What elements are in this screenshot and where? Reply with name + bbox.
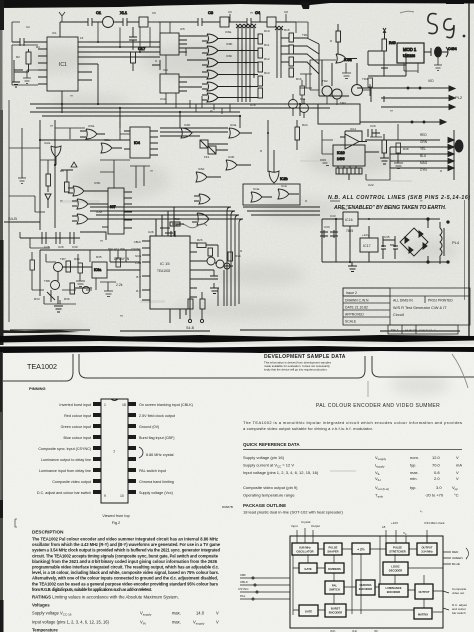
svg-text:C33: C33: [330, 214, 336, 218]
svg-text:Ground (0V): Ground (0V): [139, 425, 159, 429]
svg-text:DRAWN C.W.N: DRAWN C.W.N: [345, 299, 369, 303]
svg-text:R40: R40: [389, 41, 396, 45]
svg-text:18 lead plastic dual in-line (: 18 lead plastic dual in-line (SOT-102 wi…: [243, 510, 344, 515]
svg-text:VID: VID: [428, 79, 434, 83]
svg-text:Supply voltage (pin 16): Supply voltage (pin 16): [243, 455, 285, 460]
svg-text:IC5b: IC5b: [94, 181, 101, 185]
svg-text:IC9a: IC9a: [94, 268, 101, 272]
svg-text:from R.G.B. digital inputs, su: from R.G.B. digital inputs, suitable for…: [32, 587, 152, 592]
svg-text:PROJ PRINTED: PROJ PRINTED: [428, 299, 453, 303]
svg-text:Temperature: Temperature: [32, 628, 58, 632]
svg-text:IC6b: IC6b: [184, 123, 191, 127]
svg-text:C2: C2: [26, 25, 30, 29]
svg-text:typ.: typ.: [410, 463, 416, 468]
svg-text:R36: R36: [64, 297, 70, 301]
svg-text:Luminance input from delay lin: Luminance input from delay line: [39, 469, 91, 473]
svg-text:XL1: XL1: [120, 10, 128, 15]
svg-text:3.54 MHz: 3.54 MHz: [421, 550, 433, 554]
svg-text:GATE: GATE: [305, 610, 312, 614]
svg-text:2.0: 2.0: [434, 476, 440, 481]
svg-text:min.: min.: [410, 476, 418, 481]
svg-text:C8: C8: [284, 10, 288, 14]
svg-text:R5: R5: [60, 169, 64, 173]
svg-text:Operating temperature range: Operating temperature range: [243, 493, 295, 498]
svg-text:V: V: [216, 611, 219, 616]
svg-text:Supply voltage (Vcc): Supply voltage (Vcc): [139, 491, 173, 495]
svg-text:8.86 MHz: 8.86 MHz: [299, 546, 311, 550]
svg-text:R24: R24: [302, 123, 308, 127]
svg-text:1: 1: [104, 403, 106, 407]
svg-text:W/S R Test Generator C/W & IT: W/S R Test Generator C/W & IT: [393, 306, 447, 310]
svg-text:IC3b: IC3b: [228, 155, 235, 159]
svg-text:GRN: GRN: [420, 140, 428, 144]
svg-text:SHAPER: SHAPER: [327, 550, 338, 554]
svg-text:BLUE: BLUE: [452, 562, 460, 566]
svg-text:IC11: IC11: [350, 127, 356, 131]
svg-text:C6: C6: [228, 10, 232, 14]
svg-text:level, is a 16 colour, includi: level, is a 16 colour, including black a…: [32, 570, 219, 575]
svg-text:C30: C30: [72, 245, 78, 249]
svg-text:V: V: [456, 455, 459, 460]
svg-text:DELAY IN: DELAY IN: [114, 257, 130, 261]
svg-text:STRETCHER: STRETCHER: [389, 550, 405, 554]
svg-text:CBF: CBF: [240, 573, 246, 577]
svg-text:*:: *:: [420, 509, 423, 514]
svg-text:C20: C20: [370, 124, 376, 128]
svg-text:max.: max.: [410, 470, 419, 475]
svg-text:+12V: +12V: [362, 233, 369, 237]
svg-text:7805: 7805: [346, 229, 353, 233]
svg-text:2.2k: 2.2k: [116, 283, 123, 287]
svg-text:PAL: PAL: [240, 594, 246, 598]
svg-text:ENCODER: ENCODER: [387, 590, 400, 594]
svg-text:IC5c: IC5c: [96, 210, 103, 214]
svg-text:2.5V field clock output: 2.5V field clock output: [139, 414, 175, 418]
svg-text:Luminance output to delay line: Luminance output to delay line: [41, 458, 91, 462]
svg-text:GATE: GATE: [304, 567, 311, 571]
svg-text:nom.: nom.: [410, 455, 419, 460]
svg-text:DATE 21.10.82: DATE 21.10.82: [345, 306, 368, 310]
svg-text:On screen blanking input (CBLK: On screen blanking input (CBLK): [139, 403, 193, 407]
svg-text:bar switch: bar switch: [452, 611, 466, 615]
svg-text:+5V: +5V: [342, 207, 347, 211]
svg-text:The TEA1002 is a monolithic bi: The TEA1002 is a monolithic bipolar inte…: [243, 420, 462, 425]
svg-text:LOGIC: LOGIC: [391, 565, 400, 569]
svg-text:C29: C29: [58, 245, 64, 249]
svg-text:R31: R31: [300, 97, 306, 101]
svg-text:MATRIX: MATRIX: [418, 613, 428, 617]
svg-text:YEL: YEL: [420, 147, 426, 151]
svg-text:R15: R15: [284, 28, 290, 32]
svg-text:IC6a: IC6a: [88, 124, 95, 128]
svg-text:RV1: RV1: [235, 254, 241, 258]
svg-text:OUTPUT: OUTPUT: [418, 590, 429, 594]
svg-text:SCALE: SCALE: [345, 320, 357, 324]
svg-text:Crystal: Crystal: [301, 520, 311, 524]
svg-text:ALL DIMS IN: ALL DIMS IN: [393, 299, 413, 303]
svg-text:N.B. ALL CONTROL LINES (SKB PI: N.B. ALL CONTROL LINES (SKB PINS 2-5,14-…: [328, 195, 470, 201]
svg-text:C17: C17: [138, 46, 146, 51]
svg-text:C5: C5: [152, 11, 156, 15]
svg-text:SWITCH: SWITCH: [329, 588, 340, 592]
svg-text:C1: C1: [96, 10, 102, 15]
svg-text:TR4: TR4: [362, 77, 368, 81]
svg-text:C26: C26: [148, 230, 154, 234]
svg-text:R35: R35: [96, 255, 102, 259]
svg-text:IC2b: IC2b: [280, 177, 288, 181]
svg-text:9: 9: [104, 494, 106, 498]
svg-text:÷ 2½: ÷ 2½: [357, 548, 365, 552]
svg-text:R13: R13: [264, 71, 270, 75]
svg-text:APPROVED: APPROVED: [345, 313, 364, 317]
svg-text:PAL COLOUR ENCODER AND VIDEO S: PAL COLOUR ENCODER AND VIDEO SUMMER: [316, 403, 440, 409]
svg-text:R33: R33: [74, 257, 80, 261]
svg-text:IC17: IC17: [363, 244, 371, 248]
svg-text:1496: 1496: [337, 157, 345, 161]
svg-text:Input: Input: [291, 524, 298, 528]
svg-text:imply that the device will go: imply that the device will go into regul…: [264, 368, 328, 372]
svg-text:Viewed from top: Viewed from top: [102, 514, 129, 518]
svg-text:LUMINANCE: LUMINANCE: [385, 586, 401, 590]
svg-text:70.0: 70.0: [432, 463, 441, 468]
svg-text:C22: C22: [368, 183, 374, 187]
svg-text:CBLK: CBLK: [240, 580, 248, 584]
svg-text:Composite sync. input (CSYNC): Composite sync. input (CSYNC): [38, 447, 91, 451]
svg-text:PINNING: PINNING: [29, 386, 46, 391]
svg-text:C35: C35: [384, 235, 390, 239]
svg-text:RATINGS Limiting values in acc: RATINGS Limiting values in accordance wi…: [32, 595, 179, 600]
svg-text:V: V: [456, 476, 459, 481]
svg-text:MAG: MAG: [420, 161, 428, 165]
svg-text:-20 to +70: -20 to +70: [425, 493, 444, 498]
svg-text:RV2: RV2: [34, 297, 40, 301]
svg-text:Alternatively, with one of the: Alternatively, with one of the colour in…: [32, 576, 218, 581]
svg-text:typ.: typ.: [410, 485, 416, 490]
svg-text:Input voltage (pins 1, 2, 3, 4: Input voltage (pins 1, 2, 3, 4, 6, 12, 1…: [243, 470, 319, 475]
svg-text:Voltages: Voltages: [32, 603, 50, 608]
svg-text:10: 10: [120, 494, 124, 498]
svg-text:DESCRIPTION: DESCRIPTION: [32, 530, 64, 535]
svg-text:Chroma band limiting: Chroma band limiting: [139, 480, 174, 484]
svg-text:3.54 MHz clock: 3.54 MHz clock: [424, 521, 445, 525]
svg-text:IC3: IC3: [163, 68, 168, 72]
svg-text:FF1: FF1: [204, 155, 210, 159]
svg-text:Red colour input: Red colour input: [64, 414, 91, 418]
svg-text:R12: R12: [264, 57, 270, 61]
svg-text:GREEN: GREEN: [452, 556, 463, 560]
svg-text:TR8: TR8: [44, 279, 50, 283]
svg-text:QUICK REFERENCE DATA: QUICK REFERENCE DATA: [243, 442, 300, 447]
svg-text:IC1: IC1: [59, 62, 67, 68]
svg-text:PL4: PL4: [452, 240, 460, 245]
svg-text:MOD 1: MOD 1: [403, 47, 417, 52]
svg-text:IC1: IC1: [52, 31, 57, 35]
svg-text:IC6d: IC6d: [198, 167, 205, 171]
svg-text:D.C. adjust and colour bar swi: D.C. adjust and colour bar switch: [37, 491, 91, 495]
svg-text:PULSE: PULSE: [329, 546, 338, 550]
svg-text:R1: R1: [36, 45, 40, 49]
svg-text:PACKAGE OUTLINE: PACKAGE OUTLINE: [243, 503, 286, 508]
svg-text:ENCODER: ENCODER: [329, 611, 342, 615]
svg-text:PL2: PL2: [455, 95, 463, 100]
svg-text:system a 3.54 MHz clock output: system a 3.54 MHz clock output is provid…: [32, 548, 220, 553]
svg-text:IC4: IC4: [134, 141, 140, 145]
svg-text:Composite video output: Composite video output: [52, 480, 91, 484]
svg-text:PULSE: PULSE: [393, 546, 402, 550]
svg-text:Green colour input: Green colour input: [61, 425, 91, 429]
svg-text:Inverted burst input: Inverted burst input: [59, 403, 91, 407]
svg-text:IC3d: IC3d: [160, 97, 167, 101]
svg-text:DIVIDERS: DIVIDERS: [328, 567, 341, 571]
svg-text:8.86 MHz crystal: 8.86 MHz crystal: [146, 453, 174, 457]
svg-text:a composite video output suita: a composite video output suitable for dr…: [243, 426, 373, 431]
svg-text:Fig.2: Fig.2: [112, 521, 120, 525]
svg-text:The TEA1002 Pal colour encoder: The TEA1002 Pal colour encoder and video…: [32, 537, 218, 542]
svg-text:12.0: 12.0: [432, 455, 441, 460]
svg-text:circuit. The TEA1002 accepts t: circuit. The TEA1002 accepts timing sign…: [32, 553, 219, 558]
svg-text:V: V: [456, 470, 459, 475]
svg-text:C33: C33: [324, 225, 330, 229]
svg-text:video out: video out: [452, 591, 464, 595]
svg-text:3.0: 3.0: [436, 485, 442, 490]
svg-text:R16: R16: [296, 77, 302, 81]
svg-text:°C: °C: [454, 493, 459, 498]
svg-text:TR7: TR7: [60, 257, 66, 261]
svg-text:IC 15: IC 15: [160, 261, 170, 266]
svg-text:TR2: TR2: [322, 79, 328, 83]
svg-text:R18: R18: [250, 103, 256, 107]
svg-text:S4-B: S4-B: [186, 326, 195, 330]
svg-text:Circuit: Circuit: [393, 313, 405, 317]
svg-text:V: V: [216, 620, 219, 625]
svg-text:IC8c: IC8c: [226, 54, 233, 58]
svg-text:RED: RED: [452, 550, 459, 554]
svg-text:IC5: IC5: [180, 27, 185, 31]
svg-text:OSCILLATOR: OSCILLATOR: [296, 550, 313, 554]
svg-text:Burst flag input (CBF): Burst flag input (CBF): [139, 436, 174, 440]
svg-text:IC4a: IC4a: [253, 187, 260, 191]
svg-text:IC4c: IC4c: [281, 184, 288, 188]
svg-text:mA: mA: [456, 463, 462, 468]
svg-text:Output: Output: [311, 524, 320, 528]
svg-text:C494: C494: [448, 47, 457, 51]
svg-text:IC8a: IC8a: [225, 30, 232, 34]
svg-text:OUTPUT: OUTPUT: [421, 546, 432, 550]
svg-text:DEVELOPMENT SAMPLE DATA: DEVELOPMENT SAMPLE DATA: [264, 354, 346, 360]
svg-text:IC16: IC16: [345, 218, 353, 222]
svg-text:R11: R11: [264, 43, 270, 47]
svg-text:max.: max.: [172, 620, 181, 625]
svg-text:R48: R48: [403, 147, 409, 151]
svg-text:Issue 2: Issue 2: [346, 291, 357, 295]
svg-text:IC3a: IC3a: [230, 123, 237, 127]
svg-text:IC6c: IC6c: [104, 138, 111, 142]
svg-text:blanking) from the 2621 and a: blanking) from the 2621 and a 4 bit bina…: [32, 559, 218, 564]
svg-text:IC8b: IC8b: [226, 42, 233, 46]
svg-text:PAL: PAL: [332, 584, 338, 588]
svg-text:+12V: +12V: [391, 521, 398, 525]
svg-text:R10: R10: [264, 29, 270, 33]
svg-text:programmable video interface i: programmable video interface integrated …: [32, 565, 219, 570]
svg-text:C7: C7: [256, 10, 260, 14]
svg-text:D9667B: D9667B: [222, 505, 233, 509]
svg-text:TEA1002: TEA1002: [157, 269, 171, 273]
svg-text:BLU: BLU: [420, 154, 427, 158]
svg-text:R2: R2: [16, 55, 20, 59]
svg-text:IC10: IC10: [337, 151, 345, 155]
svg-text:R26: R26: [197, 238, 203, 242]
svg-text:C3: C3: [208, 10, 214, 15]
svg-text:Blue colour input: Blue colour input: [64, 436, 91, 440]
svg-text:18: 18: [382, 525, 386, 529]
svg-text:PAL switch input: PAL switch input: [139, 469, 166, 473]
svg-text:oscillator from which the 4.43: oscillator from which the 4.43 MHz (R-Y)…: [32, 542, 221, 547]
svg-text:R22: R22: [174, 217, 180, 221]
svg-text:DECODER: DECODER: [389, 569, 402, 573]
svg-text:max.: max.: [172, 611, 181, 616]
svg-text:18: 18: [122, 403, 126, 407]
svg-text:CSYNC: CSYNC: [238, 587, 249, 591]
svg-text:16: 16: [80, 36, 84, 40]
svg-text:BURST: BURST: [331, 607, 341, 611]
svg-text:ARE "ENABLED" BY BEING TAKEN T: ARE "ENABLED" BY BEING TAKEN TO EARTH.: [333, 205, 446, 211]
svg-text:UM1233: UM1233: [403, 54, 415, 58]
svg-text:14.0: 14.0: [196, 611, 205, 616]
svg-text:Input voltage (pins 1, 2, 3, 4: Input voltage (pins 1, 2, 3, 4, 6, 12, 1…: [32, 620, 110, 625]
svg-text:RED: RED: [420, 133, 427, 137]
svg-text:the TEA1002 can be used as a g: the TEA1002 can be used as a general pur…: [32, 581, 219, 586]
svg-text:CBLK: CBLK: [134, 240, 141, 244]
svg-text:Composite video output (pin 9): Composite video output (pin 9): [243, 485, 298, 490]
svg-text:TR1: TR1: [302, 33, 308, 37]
svg-text:CYN: CYN: [420, 168, 427, 172]
svg-text:IC2a: IC2a: [44, 141, 51, 145]
svg-text:TEA1002: TEA1002: [27, 362, 57, 371]
svg-text:0.8: 0.8: [434, 470, 440, 475]
